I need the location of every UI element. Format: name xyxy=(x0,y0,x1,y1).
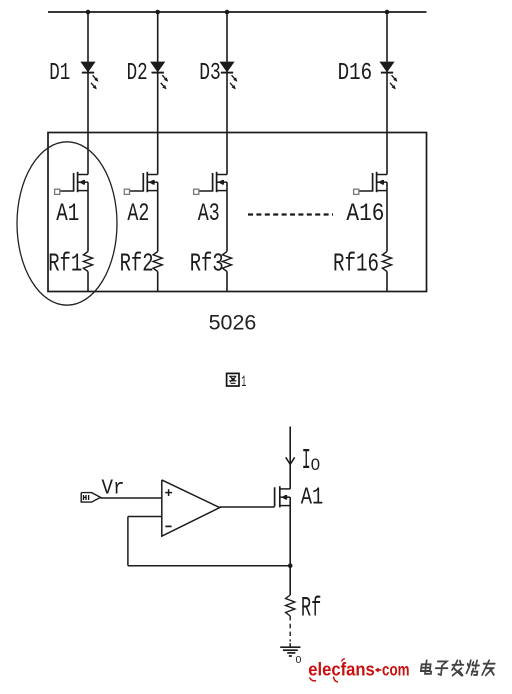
svg-text:Rf2: Rf2 xyxy=(120,249,154,279)
svg-text:1: 1 xyxy=(241,372,246,390)
svg-text:I: I xyxy=(302,446,311,478)
svg-text:5026: 5026 xyxy=(209,312,257,335)
svg-text:Rf3: Rf3 xyxy=(190,249,224,279)
svg-text:Rf16: Rf16 xyxy=(333,249,379,279)
svg-text:elecfans: elecfans xyxy=(308,659,374,679)
svg-text:D16: D16 xyxy=(338,60,373,87)
svg-text:0: 0 xyxy=(296,654,302,666)
svg-text:D3: D3 xyxy=(199,60,221,87)
svg-text:Rf1: Rf1 xyxy=(48,249,82,279)
svg-text:D2: D2 xyxy=(127,60,148,87)
svg-text:Rf: Rf xyxy=(301,594,322,625)
svg-text:Vr: Vr xyxy=(102,477,125,501)
svg-text:D1: D1 xyxy=(49,60,70,87)
svg-text:A2: A2 xyxy=(127,200,149,228)
svg-text:A16: A16 xyxy=(346,200,384,228)
svg-text:0: 0 xyxy=(311,455,320,474)
svg-text:A3: A3 xyxy=(198,200,220,228)
svg-text:A1: A1 xyxy=(301,485,324,512)
svg-text:A1: A1 xyxy=(56,200,79,228)
svg-text:com: com xyxy=(382,659,410,679)
